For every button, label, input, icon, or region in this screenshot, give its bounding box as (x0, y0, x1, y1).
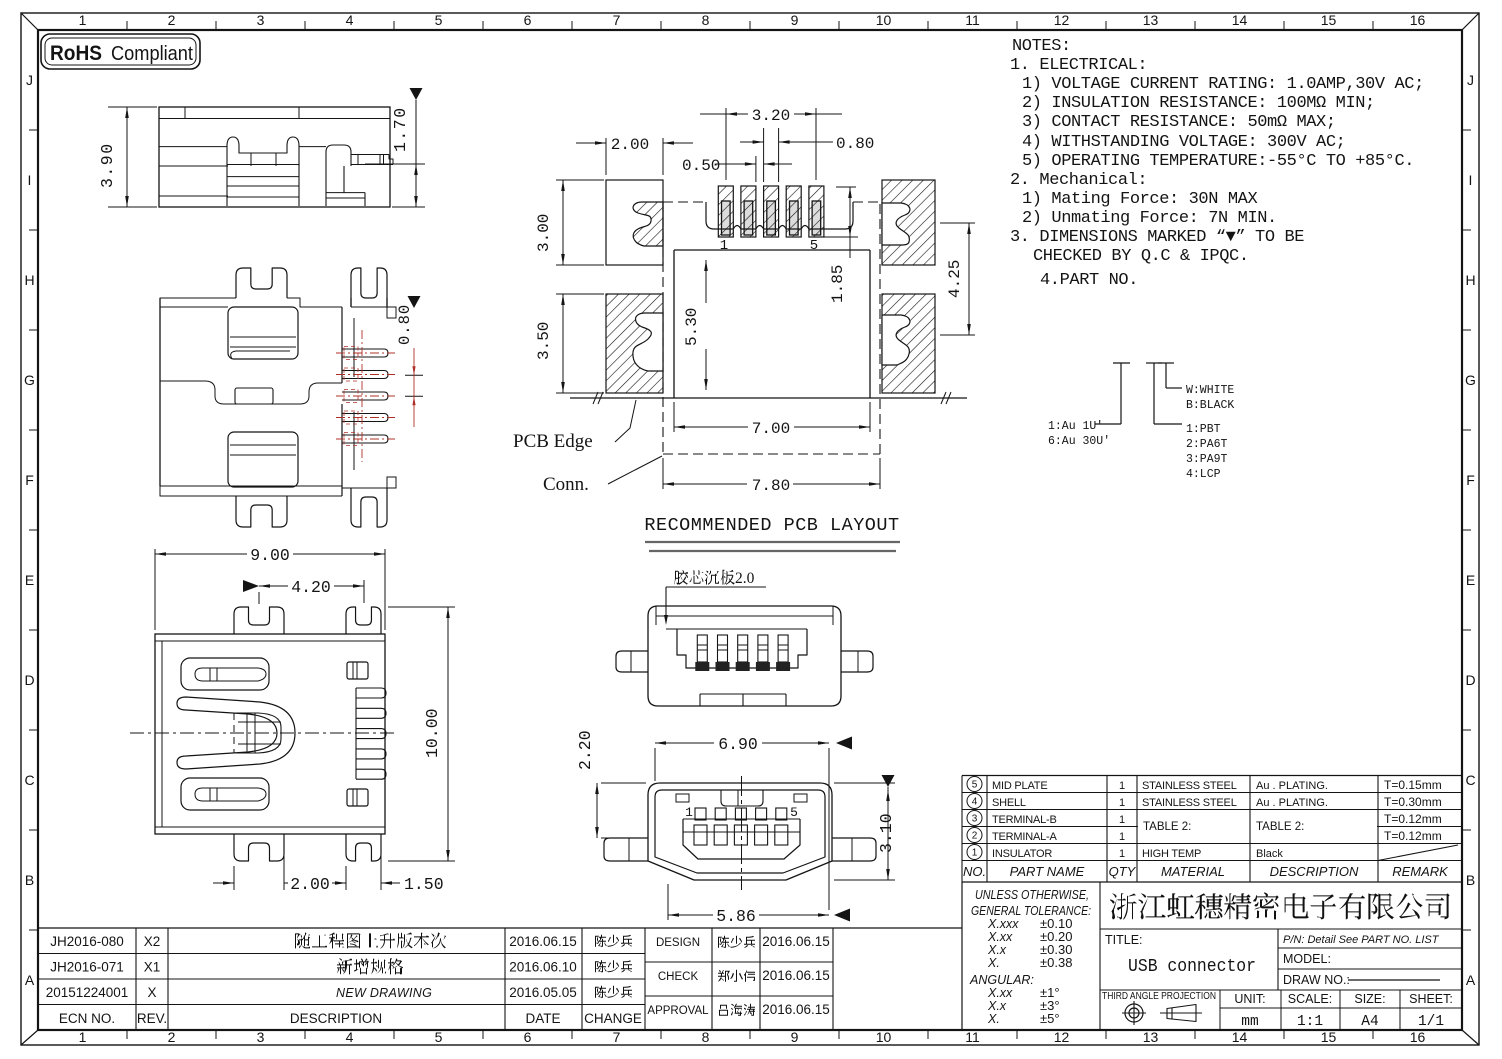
svg-text:MID PLATE: MID PLATE (992, 780, 1047, 792)
svg-text:1: 1 (79, 1029, 87, 1045)
svg-text:ANGULAR:: ANGULAR: (969, 973, 1034, 987)
svg-text:5: 5 (435, 12, 443, 28)
svg-text:4:LCP: 4:LCP (1186, 468, 1221, 481)
svg-text:SIZE:: SIZE: (1354, 992, 1385, 1006)
svg-text:CHANGE: CHANGE (584, 1011, 642, 1026)
svg-text:J: J (26, 72, 33, 88)
svg-text:DESCRIPTION: DESCRIPTION (290, 1011, 382, 1026)
svg-text:13: 13 (1143, 1029, 1159, 1045)
svg-text:2:PA6T: 2:PA6T (1186, 438, 1228, 451)
svg-text:CHECK: CHECK (658, 971, 699, 983)
svg-text:2: 2 (168, 12, 176, 28)
svg-text:1: 1 (685, 805, 693, 820)
svg-text:4.PART NO.: 4.PART NO. (1040, 271, 1138, 290)
svg-text:PCB Edge: PCB Edge (513, 431, 593, 452)
svg-text:5.86: 5.86 (716, 907, 756, 926)
svg-text:X.xx: X.xx (987, 986, 1013, 1000)
svg-text:1/1: 1/1 (1418, 1014, 1444, 1030)
svg-text:T=0.12mm: T=0.12mm (1384, 829, 1442, 843)
svg-text:0.80: 0.80 (836, 135, 874, 153)
svg-text:3.10: 3.10 (877, 813, 896, 853)
svg-text:7.80: 7.80 (752, 477, 790, 495)
svg-text:RECOMMENDED PCB LAYOUT: RECOMMENDED PCB LAYOUT (644, 515, 899, 536)
svg-text:DESIGN: DESIGN (656, 937, 700, 949)
svg-text:H: H (24, 272, 34, 288)
svg-text:3.20: 3.20 (752, 107, 790, 125)
svg-text:E: E (25, 572, 34, 588)
svg-text:X.x: X.x (987, 999, 1007, 1013)
svg-text:I: I (1469, 172, 1473, 188)
svg-text:1: 1 (79, 12, 87, 28)
svg-text:X.: X. (987, 956, 1000, 970)
svg-text:3:PA9T: 3:PA9T (1186, 453, 1228, 466)
svg-text:3: 3 (257, 1029, 265, 1045)
svg-text:HIGH TEMP: HIGH TEMP (1142, 848, 1201, 860)
svg-text:7.00: 7.00 (752, 420, 790, 438)
svg-text:SHELL: SHELL (992, 797, 1026, 809)
svg-text:3.00: 3.00 (535, 214, 553, 252)
svg-text:TABLE 2:: TABLE 2: (1143, 821, 1191, 833)
svg-text:SHEET:: SHEET: (1409, 992, 1453, 1006)
svg-text:INSULATOR: INSULATOR (992, 848, 1052, 860)
svg-text:D: D (24, 672, 34, 688)
svg-text:10: 10 (876, 12, 892, 28)
svg-text:PART NAME: PART NAME (1010, 864, 1085, 879)
svg-text:2: 2 (168, 1029, 176, 1045)
svg-text:E: E (1466, 572, 1475, 588)
svg-text:1.85: 1.85 (829, 265, 847, 303)
svg-text:2.00: 2.00 (611, 136, 649, 154)
svg-text:QTY: QTY (1109, 864, 1137, 879)
svg-text:MODEL:: MODEL: (1283, 952, 1331, 966)
svg-text:F: F (1466, 472, 1475, 488)
svg-text:DATE: DATE (525, 1011, 560, 1026)
svg-text:P/N: Detail See PART NO. LIST: P/N: Detail See PART NO. LIST (1283, 934, 1440, 946)
svg-text:5: 5 (790, 805, 798, 820)
svg-text:Compliant: Compliant (111, 43, 193, 65)
svg-text:2016.06.15: 2016.06.15 (509, 934, 577, 949)
svg-text:JH2016-080: JH2016-080 (50, 934, 124, 949)
svg-text:Au . PLATING.: Au . PLATING. (1256, 780, 1328, 792)
svg-text:3.50: 3.50 (535, 322, 553, 360)
svg-text:X.x: X.x (987, 943, 1007, 957)
svg-text:RoHS: RoHS (50, 42, 102, 65)
svg-text:1: 1 (720, 238, 728, 254)
svg-text:2.20: 2.20 (576, 730, 595, 770)
svg-text:2.0: 2.0 (735, 570, 755, 587)
svg-text:Black: Black (1256, 848, 1283, 860)
svg-text:X2: X2 (144, 934, 161, 949)
svg-text:20151224001: 20151224001 (46, 985, 129, 1000)
svg-text:W:WHITE: W:WHITE (1186, 384, 1234, 397)
svg-text:1.50: 1.50 (404, 875, 444, 894)
svg-text:1: 1 (1119, 831, 1125, 843)
svg-text:15: 15 (1321, 12, 1337, 28)
svg-text:±5°: ±5° (1040, 1011, 1060, 1026)
svg-text:D: D (1465, 672, 1475, 688)
svg-text:2) INSULATION RESISTANCE: 100M: 2) INSULATION RESISTANCE: 100MΩ MIN; (1022, 94, 1375, 113)
svg-text:A4: A4 (1361, 1014, 1378, 1030)
svg-text:mm: mm (1241, 1014, 1258, 1030)
svg-text:2016.06.15: 2016.06.15 (762, 1002, 830, 1017)
svg-text:STAINLESS STEEL: STAINLESS STEEL (1142, 797, 1237, 809)
svg-text:3: 3 (972, 814, 978, 825)
svg-text:1:Au 1U': 1:Au 1U' (1048, 420, 1103, 433)
svg-text:TITLE:: TITLE: (1105, 933, 1143, 947)
svg-text:1: 1 (972, 848, 978, 859)
svg-text:14: 14 (1232, 1029, 1248, 1045)
svg-text:6: 6 (524, 1029, 532, 1045)
svg-text:SCALE:: SCALE: (1288, 992, 1332, 1006)
svg-text:1: 1 (1119, 780, 1125, 792)
svg-text:1: 1 (1119, 814, 1125, 826)
svg-text:16: 16 (1410, 1029, 1426, 1045)
svg-text:0.50: 0.50 (682, 157, 720, 175)
svg-text:6: 6 (524, 12, 532, 28)
svg-text:2016.06.10: 2016.06.10 (509, 960, 577, 975)
svg-text:X.xxx: X.xxx (987, 917, 1019, 931)
svg-text:T=0.30mm: T=0.30mm (1384, 795, 1442, 809)
svg-text:A: A (1466, 972, 1476, 988)
svg-text:B: B (25, 872, 34, 888)
svg-text:X: X (147, 985, 156, 1000)
svg-text:1. ELECTRICAL:: 1. ELECTRICAL: (1010, 56, 1147, 75)
svg-text:X.: X. (987, 1012, 1000, 1026)
svg-text:1:PBT: 1:PBT (1186, 423, 1221, 436)
svg-text:7: 7 (613, 12, 621, 28)
svg-text:13: 13 (1143, 12, 1159, 28)
svg-text:1) Mating Force: 30N MAX: 1) Mating Force: 30N MAX (1022, 190, 1257, 209)
svg-text:JH2016-071: JH2016-071 (50, 960, 124, 975)
svg-text:10: 10 (876, 1029, 892, 1045)
svg-text:TABLE 2:: TABLE 2: (1256, 821, 1304, 833)
svg-text:DESCRIPTION: DESCRIPTION (1270, 864, 1359, 879)
svg-text:11: 11 (965, 1029, 980, 1045)
svg-text:H: H (1465, 272, 1475, 288)
svg-text:2: 2 (972, 831, 978, 842)
svg-text:6:Au 30U': 6:Au 30U' (1048, 435, 1110, 448)
svg-text:2.00: 2.00 (290, 875, 330, 894)
svg-text:T=0.15mm: T=0.15mm (1384, 778, 1442, 792)
svg-text:8: 8 (702, 1029, 710, 1045)
svg-text:2016.06.15: 2016.06.15 (762, 968, 830, 983)
svg-text:1) VOLTAGE CURRENT RATING: 1.0: 1) VOLTAGE CURRENT RATING: 1.0AMP,30V AC… (1022, 75, 1424, 94)
svg-text:2016.05.05: 2016.05.05 (509, 985, 577, 1000)
svg-text:5: 5 (972, 780, 978, 791)
svg-text:14: 14 (1232, 12, 1248, 28)
svg-text:6.90: 6.90 (718, 735, 758, 754)
svg-text:0.80: 0.80 (396, 304, 414, 345)
svg-text:9: 9 (791, 1029, 799, 1045)
svg-text:4) WITHSTANDING VOLTAGE: 300V: 4) WITHSTANDING VOLTAGE: 300V AC; (1022, 133, 1345, 152)
svg-text:A: A (25, 972, 35, 988)
svg-text:5.30: 5.30 (683, 308, 701, 346)
svg-text:TERMINAL-A: TERMINAL-A (992, 831, 1057, 843)
svg-text:C: C (24, 772, 34, 788)
svg-text:STAINLESS STEEL: STAINLESS STEEL (1142, 780, 1237, 792)
svg-text:I: I (28, 172, 32, 188)
svg-text:G: G (24, 372, 35, 388)
svg-text:4: 4 (346, 1029, 354, 1045)
svg-text:4.20: 4.20 (291, 578, 331, 597)
svg-text:F: F (25, 472, 34, 488)
svg-text:APPROVAL: APPROVAL (647, 1005, 709, 1017)
svg-text:G: G (1465, 372, 1476, 388)
svg-text:7: 7 (613, 1029, 621, 1045)
svg-text:10.00: 10.00 (423, 708, 442, 758)
svg-text:5: 5 (810, 238, 818, 254)
svg-text:REV.: REV. (137, 1011, 167, 1026)
svg-text:CHECKED BY Q.C & IPQC.: CHECKED BY Q.C & IPQC. (1033, 247, 1249, 266)
svg-text:UNLESS OTHERWISE,: UNLESS OTHERWISE, (975, 888, 1089, 902)
svg-text:UNIT:: UNIT: (1234, 992, 1265, 1006)
svg-text:3.90: 3.90 (98, 142, 117, 188)
svg-text:9.00: 9.00 (250, 546, 290, 565)
svg-text:X.xx: X.xx (987, 930, 1013, 944)
svg-text:Au . PLATING.: Au . PLATING. (1256, 797, 1328, 809)
svg-text:DRAW NO.:: DRAW NO.: (1283, 973, 1350, 987)
svg-text:X1: X1 (144, 960, 161, 975)
svg-text:ECN NO.: ECN NO. (59, 1011, 115, 1026)
svg-text:C: C (1465, 772, 1475, 788)
svg-text:T=0.12mm: T=0.12mm (1384, 812, 1442, 826)
svg-text:4: 4 (972, 797, 978, 808)
svg-text:16: 16 (1410, 12, 1426, 28)
svg-text:4.25: 4.25 (946, 260, 964, 298)
svg-text:4: 4 (346, 12, 354, 28)
svg-text:J: J (1467, 72, 1474, 88)
svg-text:USB connector: USB connector (1128, 957, 1256, 977)
svg-text:MATERIAL: MATERIAL (1161, 864, 1225, 879)
svg-text:2) Unmating Force: 7N MIN.: 2) Unmating Force: 7N MIN. (1022, 209, 1277, 228)
svg-text:TERMINAL-B: TERMINAL-B (992, 814, 1057, 826)
svg-text:1:1: 1:1 (1297, 1014, 1323, 1030)
svg-text:Conn.: Conn. (543, 474, 589, 495)
svg-text:1.70: 1.70 (391, 106, 410, 152)
svg-text:B:BLACK: B:BLACK (1186, 399, 1234, 412)
svg-text:NO.: NO. (963, 864, 986, 879)
svg-text:12: 12 (1054, 12, 1070, 28)
svg-text:NEW DRAWING: NEW DRAWING (336, 986, 432, 1000)
svg-text:3: 3 (257, 12, 265, 28)
svg-text:3. DIMENSIONS MARKED “▼” TO BE: 3. DIMENSIONS MARKED “▼” TO BE (1010, 228, 1304, 247)
svg-text:15: 15 (1321, 1029, 1337, 1045)
svg-text:2. Mechanical:: 2. Mechanical: (1010, 171, 1147, 190)
svg-text:9: 9 (791, 12, 799, 28)
svg-text:NOTES:: NOTES: (1012, 37, 1071, 56)
svg-text:GENERAL TOLERANCE:: GENERAL TOLERANCE: (971, 904, 1091, 918)
svg-text:5: 5 (435, 1029, 443, 1045)
svg-text:±0.38: ±0.38 (1040, 955, 1072, 970)
svg-text:REMARK: REMARK (1392, 864, 1449, 879)
svg-text:12: 12 (1054, 1029, 1070, 1045)
svg-text:2016.06.15: 2016.06.15 (762, 934, 830, 949)
svg-text:1: 1 (1119, 797, 1125, 809)
svg-text:1: 1 (1119, 848, 1125, 860)
svg-text:3) CONTACT RESISTANCE: 50mΩ MA: 3) CONTACT RESISTANCE: 50mΩ MAX; (1022, 113, 1336, 132)
svg-text:THIRD ANGLE PROJECTION: THIRD ANGLE PROJECTION (1102, 990, 1216, 1002)
svg-text:11: 11 (965, 12, 980, 28)
svg-text:8: 8 (702, 12, 710, 28)
svg-text:5) OPERATING TEMPERATURE:-55°C: 5) OPERATING TEMPERATURE:-55°C TO +85°C. (1022, 152, 1414, 171)
svg-text:B: B (1466, 872, 1475, 888)
